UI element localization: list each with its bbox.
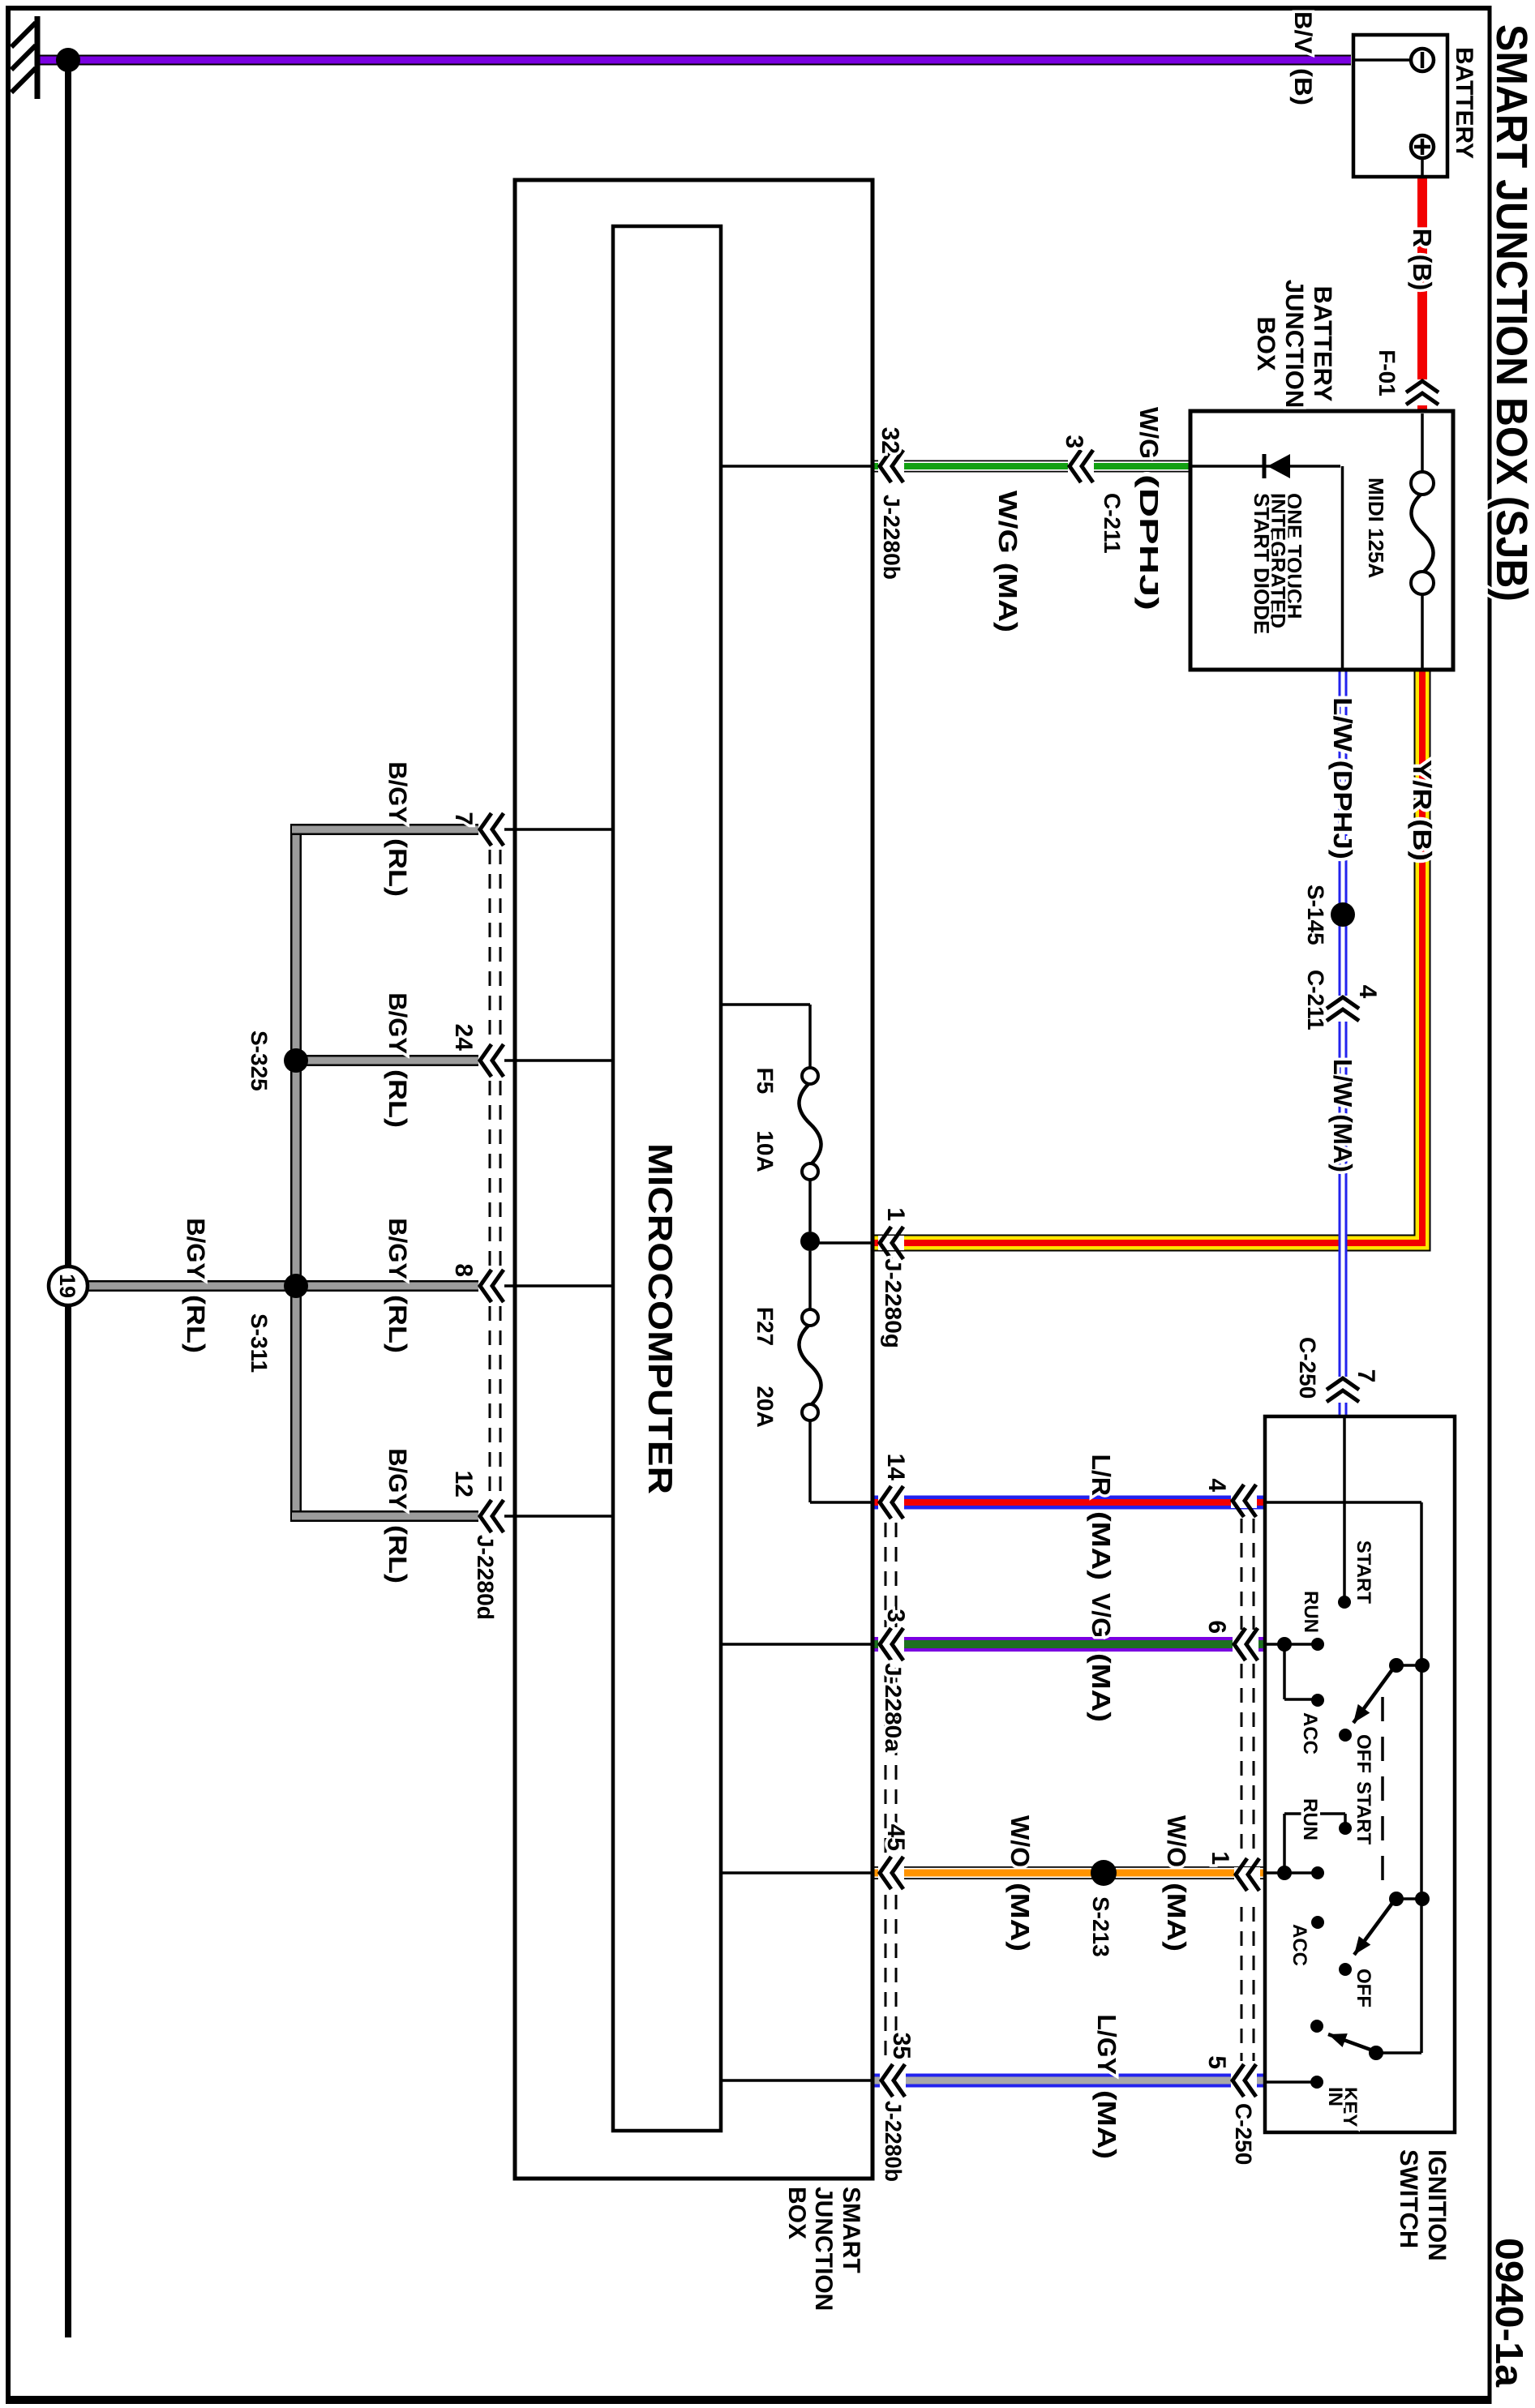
svg-text:B/GY: B/GY [384,761,412,823]
svg-text:JUNCTION: JUNCTION [1280,280,1309,408]
svg-text:ACC: ACC [1288,1924,1310,1966]
svg-text:MIDI 125A: MIDI 125A [1364,478,1388,578]
svg-text:BATTERY: BATTERY [1451,47,1477,159]
svg-text:19: 19 [55,1274,79,1298]
svg-text:OFF: OFF [1353,1734,1374,1773]
svg-text:5: 5 [1203,2055,1230,2069]
svg-text:SMART JUNCTION BOX (SJB): SMART JUNCTION BOX (SJB) [1487,24,1535,602]
svg-text:RUN: RUN [1300,1591,1322,1633]
svg-text:C-211: C-211 [1100,493,1125,554]
svg-text:20A: 20A [752,1386,778,1427]
svg-text:(MA): (MA) [1087,1653,1116,1722]
svg-text:(DPHJ): (DPHJ) [1134,474,1164,611]
svg-text:(RL): (RL) [384,1525,412,1583]
svg-text:(RL): (RL) [182,1295,210,1353]
svg-text:(MA): (MA) [1092,2090,1121,2159]
svg-text:S-325: S-325 [247,1030,272,1091]
svg-text:S-145: S-145 [1303,885,1328,945]
svg-text:1: 1 [882,1207,909,1221]
svg-text:B/V: B/V [1289,11,1316,54]
svg-text:SWITCH: SWITCH [1395,2149,1423,2248]
svg-text:35: 35 [888,2033,915,2059]
svg-text:C-211: C-211 [1303,970,1328,1030]
svg-text:RUN: RUN [1299,1798,1321,1840]
svg-text:W/O: W/O [1005,1815,1035,1867]
svg-text:L/GY: L/GY [1092,2014,1121,2075]
svg-text:START: START [1353,1781,1374,1845]
svg-text:4: 4 [1354,985,1381,999]
svg-text:J-2280d: J-2280d [473,1535,498,1620]
svg-text:BOX: BOX [783,2187,810,2239]
svg-text:L/W (DPHJ): L/W (DPHJ) [1328,697,1357,859]
svg-text:F5: F5 [752,1068,778,1095]
svg-text:W/O: W/O [1162,1815,1191,1867]
svg-text:(RL): (RL) [384,1069,412,1128]
svg-text:B/GY: B/GY [384,1218,412,1279]
svg-text:B/GY: B/GY [384,1448,412,1510]
svg-text:L/W (MA): L/W (MA) [1328,1059,1357,1172]
svg-text:START: START [1353,1540,1374,1605]
svg-text:C-250: C-250 [1231,2103,1256,2165]
svg-text:S-213: S-213 [1088,1896,1113,1957]
svg-text:C-250: C-250 [1295,1337,1320,1399]
svg-text:3: 3 [1061,435,1087,448]
svg-text:(MA): (MA) [1162,1883,1191,1952]
svg-text:10A: 10A [752,1130,778,1172]
svg-text:3: 3 [882,1609,909,1622]
svg-text:(MA): (MA) [1005,1883,1035,1952]
svg-text:24: 24 [450,1024,477,1052]
svg-text:F27: F27 [752,1307,778,1346]
svg-text:J-2280a: J-2280a [881,1663,906,1752]
svg-text:(RL): (RL) [384,1295,412,1353]
svg-text:START DIODE: START DIODE [1250,493,1274,634]
svg-text:ACC: ACC [1299,1712,1321,1755]
svg-text:8: 8 [450,1263,477,1277]
svg-text:IN: IN [1324,2087,1346,2106]
svg-text:Y/R (B): Y/R (B) [1408,760,1437,861]
svg-text:J-2280b: J-2280b [881,2101,906,2182]
svg-text:J-2280b: J-2280b [879,495,904,580]
svg-text:45: 45 [882,1824,909,1851]
svg-text:IGNITION: IGNITION [1423,2149,1451,2261]
svg-text:BATTERY: BATTERY [1309,286,1337,402]
svg-text:0940-1a: 0940-1a [1487,2238,1530,2387]
svg-text:BOX: BOX [1252,316,1280,371]
svg-text:J-2280g: J-2280g [881,1258,906,1348]
svg-text:B/GY: B/GY [384,992,412,1054]
svg-text:(RL): (RL) [384,838,412,897]
svg-text:1: 1 [1207,1851,1233,1865]
svg-text:B/GY: B/GY [182,1218,210,1279]
svg-text:L/R: L/R [1087,1454,1116,1496]
svg-text:32: 32 [877,427,903,454]
svg-text:(B): (B) [1289,68,1316,105]
svg-text:W/G: W/G [1134,407,1164,459]
svg-text:S-311: S-311 [247,1313,272,1373]
svg-text:7: 7 [1353,1369,1379,1383]
svg-text:6: 6 [1203,1620,1230,1634]
svg-text:V/G: V/G [1087,1593,1116,1638]
svg-text:4: 4 [1203,1478,1230,1492]
svg-text:F-01: F-01 [1374,349,1400,396]
svg-text:R (B): R (B) [1408,229,1437,290]
svg-text:W/G (MA): W/G (MA) [993,491,1023,632]
svg-text:JUNCTION: JUNCTION [810,2187,837,2311]
svg-text:(MA): (MA) [1087,1511,1116,1580]
svg-text:SMART: SMART [838,2187,864,2273]
svg-text:12: 12 [450,1471,477,1498]
svg-text:OFF: OFF [1353,1969,1374,2007]
svg-text:MICROCOMPUTER: MICROCOMPUTER [641,1143,680,1494]
svg-text:7: 7 [450,812,477,825]
svg-text:14: 14 [882,1454,909,1481]
